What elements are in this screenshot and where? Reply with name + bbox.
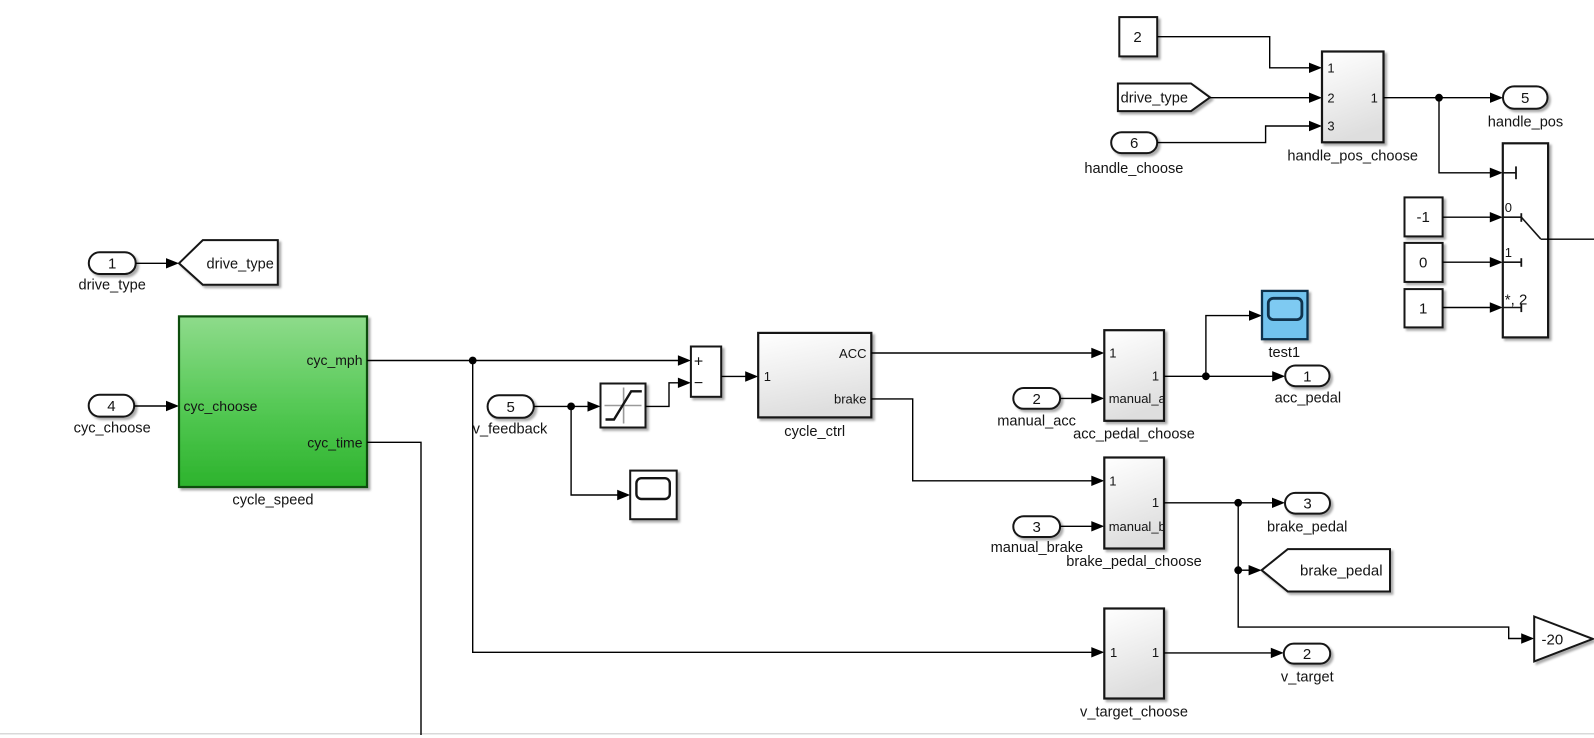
scope test1	[1262, 291, 1308, 361]
outport 1 acc_pedal oval	[1275, 366, 1342, 407]
inport 4 cyc_choose oval	[74, 395, 151, 437]
wire v_feedback to saturation	[534, 401, 601, 411]
inport 6 handle_choose oval	[1084, 132, 1183, 177]
gain -20	[1534, 617, 1593, 662]
svg-text:1: 1	[1152, 495, 1159, 510]
node junction on cyc_mph wire	[469, 357, 477, 365]
sum block	[691, 347, 721, 397]
svg-text:1: 1	[1327, 60, 1334, 75]
svg-text:cycle_speed: cycle_speed	[232, 493, 313, 509]
svg-text:1: 1	[1109, 346, 1116, 361]
svg-text:5: 5	[507, 399, 515, 416]
svg-text:-20: -20	[1542, 632, 1564, 649]
svg-text:drive_type: drive_type	[1121, 90, 1188, 106]
svg-text:1: 1	[1419, 301, 1427, 318]
wire ACC to acc_pedal_choose input 1	[871, 348, 1104, 358]
svg-text:0: 0	[1419, 255, 1427, 272]
wire switch output to right edge	[1541, 238, 1594, 240]
wire junction down to switch control input	[1439, 98, 1503, 178]
svg-text:1: 1	[1371, 90, 1378, 105]
chooser brake_pedal_choose	[1066, 458, 1202, 571]
outport 2 v_target oval	[1281, 644, 1334, 686]
node junction2 at goto branch	[1234, 566, 1242, 574]
wire constant -1 to switch input 2	[1443, 212, 1503, 222]
svg-text:drive_type: drive_type	[207, 256, 274, 272]
multiport switch block	[1503, 143, 1548, 337]
wire drive_type tag to handle_pos_choose input 2	[1210, 93, 1322, 103]
chooser handle_pos_choose	[1287, 52, 1418, 165]
wire acc_pedal_choose out to outport 1	[1164, 371, 1285, 381]
wire brake to brake_pedal_choose input 1	[871, 399, 1104, 486]
svg-text:brake: brake	[834, 392, 867, 407]
svg-text:+: +	[694, 353, 703, 370]
constant 2	[1119, 17, 1157, 56]
svg-text:2: 2	[1327, 90, 1334, 105]
node junction acc out	[1202, 372, 1210, 380]
svg-text:1: 1	[1110, 645, 1117, 660]
svg-text:5: 5	[1521, 90, 1529, 107]
svg-text:drive_type: drive_type	[79, 278, 146, 294]
svg-text:0: 0	[1505, 200, 1512, 215]
wire junction down to scope	[571, 406, 630, 500]
svg-text:cyc_time: cyc_time	[307, 435, 362, 451]
constant 1	[1405, 289, 1443, 327]
saturation block	[601, 384, 646, 428]
constant -1	[1405, 197, 1443, 236]
svg-text:cyc_mph: cyc_mph	[306, 352, 362, 368]
outport 5 handle_pos oval	[1488, 86, 1563, 130]
svg-text:1: 1	[1152, 369, 1159, 384]
svg-text:6: 6	[1130, 135, 1138, 152]
wire brake_pedal_choose out to outport 3	[1164, 498, 1285, 508]
svg-text:1: 1	[764, 369, 771, 384]
inport 2 manual_acc oval	[997, 388, 1076, 429]
wire manual_acc to acc_pedal_choose input 2	[1060, 393, 1104, 403]
svg-text:manual_ac: manual_ac	[1109, 391, 1173, 406]
constant 0	[1405, 243, 1443, 282]
node junction brake out	[1234, 499, 1242, 507]
wire junction down to goto tag brake_pedal	[1238, 503, 1261, 576]
wire constant2 to handle_pos_choose input 1	[1157, 37, 1322, 73]
scope block	[630, 471, 677, 520]
wire inport4 to cycle_speed	[134, 401, 179, 411]
svg-text:acc_pedal: acc_pedal	[1275, 391, 1342, 407]
svg-text:3: 3	[1033, 519, 1041, 536]
svg-text:1: 1	[108, 255, 116, 272]
outport 5 v_feedback oval	[473, 395, 548, 437]
svg-text:4: 4	[107, 398, 115, 415]
svg-text:2: 2	[1303, 646, 1311, 663]
svg-text:2: 2	[1033, 391, 1041, 408]
svg-text:v_target_choose: v_target_choose	[1080, 705, 1188, 721]
svg-text:1: 1	[1505, 245, 1512, 260]
svg-text:cycle_ctrl: cycle_ctrl	[784, 424, 845, 440]
svg-text:brake_pedal_choose: brake_pedal_choose	[1066, 554, 1202, 570]
node junction after v_feedback	[567, 403, 575, 411]
wire cyc_mph to sum + input	[367, 355, 691, 365]
wire saturation to sum - input	[646, 378, 691, 407]
svg-text:v_target: v_target	[1281, 670, 1334, 686]
svg-text:1: 1	[1109, 473, 1116, 488]
wire v_target_choose out to outport 2	[1164, 648, 1284, 658]
wire sum to cycle_ctrl	[721, 371, 758, 381]
inport 1 drive_type oval	[79, 252, 146, 293]
svg-text:v_feedback: v_feedback	[473, 422, 548, 438]
wire inport1 to goto tag	[136, 258, 179, 268]
chooser v_target_choose	[1080, 609, 1188, 721]
svg-text:cyc_choose: cyc_choose	[184, 398, 258, 414]
svg-text:−: −	[694, 375, 703, 392]
wire manual_brake to brake_pedal_choose input 2	[1060, 521, 1104, 531]
bottom canvas boundary line	[0, 733, 1594, 735]
chooser acc_pedal_choose	[1073, 330, 1195, 442]
svg-text:3: 3	[1327, 119, 1334, 134]
svg-text:acc_pedal_choose: acc_pedal_choose	[1073, 426, 1195, 442]
svg-text:handle_pos: handle_pos	[1488, 115, 1563, 131]
svg-text:handle_pos_choose: handle_pos_choose	[1287, 148, 1418, 164]
svg-text:3: 3	[1303, 496, 1311, 513]
wire cyc_time down off-canvas	[367, 442, 421, 735]
svg-text:1: 1	[1152, 645, 1159, 660]
svg-text:brake_pedal: brake_pedal	[1300, 563, 1383, 580]
svg-text:handle_choose: handle_choose	[1084, 161, 1183, 177]
svg-text:-1: -1	[1417, 209, 1430, 226]
svg-text:test1: test1	[1268, 345, 1300, 361]
wire junction up to test1 scope	[1206, 310, 1262, 376]
outport 3 brake_pedal oval	[1267, 493, 1347, 535]
svg-text:2: 2	[1133, 29, 1141, 46]
inport 3 manual_brake oval	[991, 516, 1084, 556]
subsystem cycle_speed	[179, 316, 367, 508]
goto tag drive_type	[179, 240, 278, 285]
wire constant 1 to switch input 4	[1443, 302, 1503, 312]
from tag drive_type top	[1118, 84, 1210, 112]
svg-text:brake_pedal: brake_pedal	[1267, 519, 1347, 535]
wire handle_pos_choose out to outport 5	[1384, 93, 1504, 103]
svg-text:ACC: ACC	[839, 346, 866, 361]
svg-text:1: 1	[1303, 368, 1311, 385]
goto tag brake_pedal	[1262, 549, 1390, 591]
svg-text:cyc_choose: cyc_choose	[74, 420, 151, 436]
subsystem cycle_ctrl	[758, 333, 871, 440]
node junction handle out	[1435, 94, 1443, 102]
wire constant 0 to switch input 3	[1443, 257, 1503, 267]
wire junction2 down to gain	[1238, 570, 1534, 644]
wire handle_choose to handle_pos_choose input 3	[1157, 121, 1322, 143]
svg-text:manual_acc: manual_acc	[997, 413, 1076, 429]
wire junction down to v_target_choose input	[473, 361, 1105, 658]
svg-text:*, 2: *, 2	[1505, 292, 1528, 309]
svg-text:manual_br: manual_br	[1109, 519, 1171, 534]
